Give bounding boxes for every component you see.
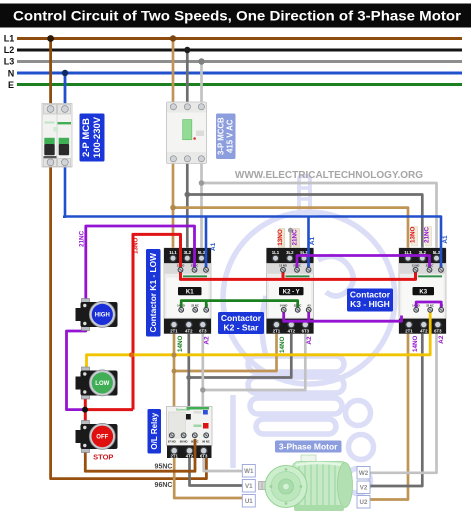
svg-text:V1: V1 [245,483,253,490]
svg-text:21NC: 21NC [79,230,86,247]
svg-text:K2 - Y: K2 - Y [283,290,300,296]
svg-text:2T1: 2T1 [170,454,178,459]
svg-text:95NC: 95NC [155,464,173,471]
svg-text:A2: A2 [438,335,445,344]
svg-text:Schneider: Schneider [176,408,191,412]
svg-text:Control Circuit of Two Speeds,: Control Circuit of Two Speeds, One Direc… [13,9,461,25]
svg-text:L1: L1 [4,34,15,44]
svg-text:V2: V2 [360,485,368,492]
svg-text:2-P MCB: 2-P MCB [81,118,92,157]
svg-text:14NO: 14NO [177,335,184,352]
svg-text:K3 - HIGH: K3 - HIGH [350,299,390,309]
svg-text:E: E [8,80,14,90]
svg-text:A1: A1 [442,235,449,244]
svg-text:97 NO: 97 NO [168,439,176,443]
svg-text:4T2: 4T2 [186,454,194,459]
svg-text:96NC: 96NC [155,482,173,489]
svg-text:W2: W2 [359,470,369,477]
svg-text:LOW: LOW [95,381,109,387]
svg-text:L3: L3 [4,57,15,67]
svg-text:13NO: 13NO [277,229,284,246]
svg-text:L2: L2 [4,45,15,55]
svg-text:21NC: 21NC [291,229,298,246]
svg-text:W1: W1 [244,468,254,475]
svg-text:OFF: OFF [96,435,108,441]
svg-text:3-P MCCB: 3-P MCCB [217,117,226,155]
svg-text:A2: A2 [204,336,211,345]
svg-text:Contactor: Contactor [350,290,391,300]
svg-text:Contactor: Contactor [221,313,262,323]
svg-text:13NO: 13NO [409,226,416,243]
svg-text:3-Phase Motor: 3-Phase Motor [279,442,338,452]
svg-text:100-230V: 100-230V [92,116,103,158]
svg-text:21NC: 21NC [423,227,430,244]
svg-text:A1: A1 [309,236,316,245]
svg-text:415 V AC: 415 V AC [226,119,235,153]
svg-text:STOP: STOP [93,453,113,462]
svg-text:K3: K3 [419,290,427,296]
svg-text:N: N [8,69,15,79]
svg-text:14NO: 14NO [279,336,286,353]
svg-text:K1: K1 [186,290,194,296]
svg-text:98 NO: 98 NO [180,439,188,443]
svg-text:96 NC: 96 NC [202,439,210,443]
svg-text:WWW.ELECTRICALTECHNOLOGY.ORG: WWW.ELECTRICALTECHNOLOGY.ORG [235,170,423,181]
svg-text:13NO: 13NO [133,237,140,254]
svg-text:U1: U1 [245,498,253,505]
svg-text:O/L Relay: O/L Relay [150,412,159,449]
svg-text:6T3: 6T3 [200,454,208,459]
svg-text:14NO: 14NO [412,335,419,352]
svg-text:HIGH: HIGH [95,313,110,319]
svg-text:K2 - Star: K2 - Star [224,323,260,333]
svg-text:A1: A1 [210,242,217,251]
svg-text:U2: U2 [360,499,368,506]
svg-text:A2: A2 [306,336,313,345]
svg-text:Contactor K1 - LOW: Contactor K1 - LOW [148,253,158,333]
